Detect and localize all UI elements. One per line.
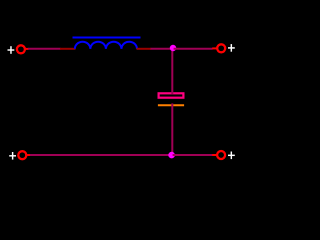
terminal T1 circle: [17, 45, 25, 53]
terminal T4 plus label: [228, 152, 235, 160]
inductor L1 coil: [75, 42, 137, 49]
terminal T1 lead: [25, 48, 29, 50]
terminal T1 plus label: [8, 46, 15, 54]
inductor L1 left lead: [60, 48, 76, 50]
capacitor C1 negative plate: [158, 104, 184, 106]
wire capacitor bottom leg: [171, 103, 173, 155]
wire bottom rail left segment: [30, 154, 173, 156]
wire top rail right segment: [174, 48, 213, 50]
wire inductor to junction: [151, 48, 173, 50]
terminal T3 plus label: [9, 152, 16, 160]
node junction top: [170, 45, 176, 51]
capacitor C1 positive plate: [159, 93, 184, 97]
terminal T2 plus label: [228, 44, 235, 52]
terminal T3 circle: [18, 151, 26, 159]
inductor L1 right lead: [137, 48, 152, 50]
terminal T4 circle: [217, 151, 225, 159]
terminal T4 lead: [212, 154, 217, 156]
inductor L1 core bar: [73, 37, 141, 39]
terminal T2 circle: [217, 44, 225, 52]
terminal T3 lead: [26, 154, 30, 156]
wire bottom rail right segment: [173, 154, 213, 156]
wire capacitor top leg: [171, 49, 173, 95]
wire top rail left segment: [28, 48, 61, 50]
terminal T2 lead: [212, 47, 217, 49]
node junction bottom: [168, 152, 175, 159]
